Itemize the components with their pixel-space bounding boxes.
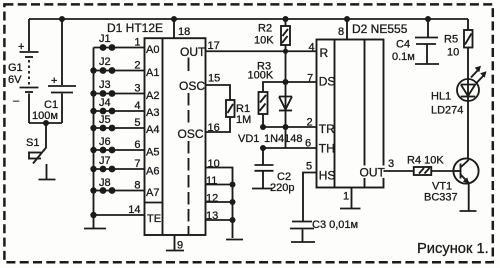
svg-text:3: 3	[134, 83, 140, 95]
svg-text:J2: J2	[99, 56, 111, 68]
svg-text:BC337: BC337	[424, 192, 458, 204]
svg-text:J3: J3	[99, 79, 111, 91]
svg-text:TR: TR	[319, 122, 335, 136]
svg-text:TE: TE	[147, 213, 161, 225]
svg-text:DS: DS	[319, 75, 336, 89]
svg-text:A3: A3	[146, 107, 159, 119]
svg-text:–: –	[13, 95, 20, 107]
svg-text:13: 13	[206, 210, 218, 222]
svg-text:18: 18	[178, 26, 190, 38]
svg-text:14: 14	[128, 204, 140, 216]
svg-text:OSC: OSC	[178, 127, 204, 141]
svg-text:1: 1	[134, 37, 140, 49]
svg-text:VD1: VD1	[238, 133, 259, 145]
svg-text:16: 16	[208, 122, 220, 134]
svg-text:R4 10K: R4 10K	[407, 155, 444, 167]
svg-text:J4: J4	[99, 97, 111, 109]
svg-text:8: 8	[338, 26, 344, 38]
svg-text:+: +	[51, 75, 57, 87]
svg-text:J8: J8	[99, 177, 111, 189]
svg-text:100K: 100K	[248, 70, 274, 82]
svg-text:0.1м: 0.1м	[392, 51, 415, 63]
svg-text:R2: R2	[258, 23, 272, 35]
svg-text:R5: R5	[444, 34, 458, 46]
svg-text:1: 1	[343, 191, 349, 203]
svg-text:10: 10	[447, 47, 459, 59]
svg-text:A4: A4	[146, 124, 159, 136]
svg-text:220p: 220p	[270, 182, 294, 194]
svg-text:OUT: OUT	[180, 45, 206, 59]
svg-text:5: 5	[306, 161, 312, 173]
svg-text:9: 9	[177, 240, 183, 252]
svg-text:A6: A6	[146, 166, 159, 178]
svg-text:11: 11	[206, 175, 217, 187]
svg-text:10K: 10K	[254, 35, 274, 47]
svg-text:A7: A7	[146, 187, 159, 199]
svg-text:J7: J7	[99, 155, 111, 167]
svg-text:10: 10	[208, 158, 220, 170]
svg-text:A2: A2	[146, 90, 159, 102]
svg-text:A5: A5	[146, 147, 159, 159]
svg-text:Рисунок 1.: Рисунок 1.	[417, 241, 489, 257]
svg-text:4: 4	[134, 100, 140, 112]
svg-text:1M: 1M	[236, 114, 251, 126]
svg-text:100м: 100м	[32, 110, 58, 122]
svg-text:8: 8	[134, 180, 140, 192]
svg-text:6V: 6V	[8, 74, 22, 86]
svg-text:7: 7	[307, 73, 313, 85]
svg-text:J5: J5	[99, 114, 111, 126]
svg-text:2: 2	[307, 117, 313, 129]
svg-text:A1: A1	[146, 67, 159, 79]
svg-text:7: 7	[134, 158, 140, 170]
svg-text:2: 2	[134, 60, 140, 72]
svg-text:5: 5	[134, 117, 140, 129]
svg-text:LD274: LD274	[431, 105, 463, 117]
svg-text:6: 6	[134, 139, 140, 151]
svg-text:3: 3	[388, 158, 394, 170]
svg-text:R: R	[320, 46, 329, 60]
svg-text:D2 NE555: D2 NE555	[352, 22, 408, 36]
svg-text:+: +	[18, 41, 24, 53]
svg-text:D1 HT12E: D1 HT12E	[107, 21, 163, 35]
svg-text:4: 4	[309, 42, 315, 54]
svg-text:S1: S1	[26, 137, 39, 149]
svg-text:J6: J6	[99, 136, 111, 148]
svg-text:1N4148: 1N4148	[264, 133, 303, 145]
svg-text:OSC: OSC	[179, 79, 205, 93]
svg-text:12: 12	[206, 193, 218, 205]
svg-text:17: 17	[208, 40, 220, 52]
svg-text:HS: HS	[319, 169, 336, 183]
svg-text:A0: A0	[146, 44, 159, 56]
svg-text:C3 0,01м: C3 0,01м	[312, 219, 358, 231]
svg-text:OUT: OUT	[360, 166, 386, 180]
svg-text:G1: G1	[8, 62, 23, 74]
svg-text:15: 15	[208, 73, 220, 85]
svg-text:C4: C4	[396, 39, 410, 51]
svg-text:HL1: HL1	[431, 91, 451, 103]
svg-text:TH: TH	[319, 142, 335, 156]
svg-text:6: 6	[305, 138, 311, 150]
